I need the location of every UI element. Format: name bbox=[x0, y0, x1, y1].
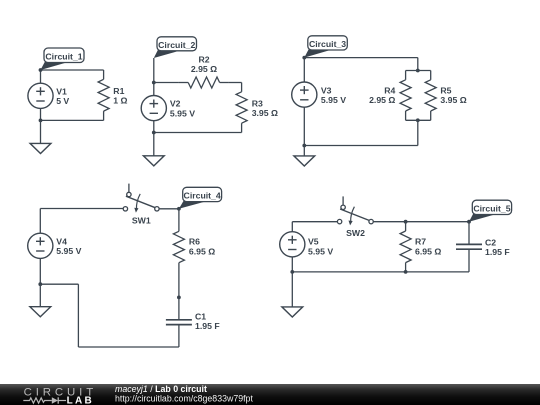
voltage source V2 bbox=[141, 96, 166, 133]
svg-text:R1: R1 bbox=[113, 86, 124, 96]
voltage source V3 bbox=[292, 58, 317, 146]
ground c4 bbox=[30, 284, 51, 317]
node flag Circuit_3 bbox=[304, 36, 347, 58]
svg-text:V1: V1 bbox=[56, 86, 67, 96]
wire top c3 bbox=[304, 58, 418, 71]
wire bottom c4 bbox=[40, 284, 179, 347]
svg-text:5.95 V: 5.95 V bbox=[308, 246, 333, 256]
svg-text:Circuit_1: Circuit_1 bbox=[45, 51, 82, 61]
wire bottom c5 bbox=[292, 271, 469, 273]
ground c2 bbox=[143, 133, 164, 166]
svg-text:V3: V3 bbox=[321, 85, 332, 95]
svg-text:maceyj1 / Lab 0 circuit: maceyj1 / Lab 0 circuit bbox=[115, 384, 207, 394]
svg-text:Circuit_4: Circuit_4 bbox=[184, 191, 221, 201]
node C c5 bbox=[290, 270, 294, 274]
svg-text:Circuit_3: Circuit_3 bbox=[309, 39, 346, 49]
node flag Circuit_1 bbox=[41, 48, 85, 70]
svg-text:1.95 F: 1.95 F bbox=[485, 247, 510, 257]
svg-text:R6: R6 bbox=[189, 237, 200, 247]
resistor R6 bbox=[173, 222, 184, 272]
capacitor C2 bbox=[456, 222, 482, 272]
node flag Circuit_4 bbox=[179, 187, 222, 209]
svg-text:5.95 V: 5.95 V bbox=[56, 246, 81, 256]
wire sw2 to C2 bbox=[373, 221, 469, 223]
svg-text:3.95 Ω: 3.95 Ω bbox=[252, 108, 278, 118]
ground c1 bbox=[30, 120, 51, 153]
wire bottom c2 bbox=[154, 132, 242, 134]
svg-text:V5: V5 bbox=[308, 237, 319, 247]
svg-text:5.95 V: 5.95 V bbox=[321, 95, 346, 105]
node D c3 bbox=[416, 118, 420, 122]
wire node to R6 bbox=[178, 209, 180, 222]
logo squiggle resistor bbox=[23, 398, 52, 403]
svg-text:Circuit_2: Circuit_2 bbox=[158, 40, 195, 50]
capacitor C1 bbox=[166, 297, 192, 347]
svg-text:R3: R3 bbox=[252, 98, 263, 108]
svg-text:V2: V2 bbox=[170, 99, 181, 109]
wire c2 vertical bbox=[153, 58, 155, 96]
switch SW1 bbox=[123, 184, 159, 226]
svg-text:2.95 Ω: 2.95 Ω bbox=[191, 64, 217, 74]
ground c3 bbox=[294, 146, 315, 167]
svg-text:C1: C1 bbox=[195, 312, 206, 322]
node A c5 bbox=[404, 220, 408, 224]
svg-text:5.95 V: 5.95 V bbox=[170, 108, 195, 118]
resistor R5 bbox=[425, 71, 436, 121]
wire R6 to C1 bbox=[178, 272, 180, 297]
node A c2 bbox=[152, 81, 156, 85]
node C c4 bbox=[38, 282, 42, 286]
svg-text:SW1: SW1 bbox=[132, 215, 151, 225]
wire sw1 to node bbox=[159, 208, 179, 210]
node A c4 bbox=[177, 207, 181, 211]
ground c5 bbox=[282, 272, 303, 317]
wire top-left c5 bbox=[292, 222, 337, 232]
svg-text:LAB: LAB bbox=[67, 395, 94, 405]
wire top-left c4 bbox=[40, 209, 123, 234]
svg-text:V4: V4 bbox=[56, 236, 67, 246]
resistor R1 bbox=[98, 70, 109, 120]
voltage source V1 bbox=[28, 70, 53, 120]
switch SW2 bbox=[337, 196, 373, 238]
svg-text:1.95 F: 1.95 F bbox=[195, 321, 220, 331]
svg-text:http://circuitlab.com/c8ge833w: http://circuitlab.com/c8ge833w79fpt bbox=[115, 394, 253, 404]
svg-text:R4: R4 bbox=[384, 85, 395, 95]
node D c5 bbox=[404, 270, 408, 274]
wire bottom c3 bbox=[304, 120, 418, 145]
node C c3 bbox=[416, 69, 420, 73]
wire bottom c1 bbox=[41, 119, 104, 121]
resistor R7 bbox=[400, 222, 411, 272]
node A c1 bbox=[39, 68, 43, 72]
wire bar bottom c3 bbox=[406, 119, 431, 121]
resistor R2 bbox=[154, 77, 242, 88]
wire top c1 bbox=[41, 69, 104, 71]
svg-text:R5: R5 bbox=[440, 85, 451, 95]
node B c4 bbox=[177, 296, 181, 300]
svg-text:6.95 Ω: 6.95 Ω bbox=[189, 246, 215, 256]
voltage source V5 bbox=[280, 232, 305, 272]
svg-text:SW2: SW2 bbox=[346, 228, 365, 238]
node B c1 bbox=[39, 119, 43, 123]
node flag Circuit_5 bbox=[469, 200, 512, 222]
svg-text:R7: R7 bbox=[415, 237, 426, 247]
node B c5 bbox=[467, 220, 471, 224]
svg-text:Circuit_5: Circuit_5 bbox=[473, 204, 510, 214]
node A c3 bbox=[302, 56, 306, 60]
svg-text:3.95 Ω: 3.95 Ω bbox=[440, 95, 466, 105]
voltage source V4 bbox=[28, 233, 53, 284]
footer bar bbox=[0, 384, 540, 405]
node B c3 bbox=[302, 144, 306, 148]
svg-text:1 Ω: 1 Ω bbox=[113, 96, 127, 106]
svg-text:6.95 Ω: 6.95 Ω bbox=[415, 246, 441, 256]
resistor R3 bbox=[236, 83, 247, 133]
node B c2 bbox=[152, 131, 156, 135]
svg-text:2.95 Ω: 2.95 Ω bbox=[369, 95, 395, 105]
svg-text:5 V: 5 V bbox=[56, 96, 69, 106]
wire bar top c3 bbox=[406, 70, 431, 72]
logo diode bbox=[52, 397, 58, 403]
resistor R4 bbox=[400, 71, 411, 121]
node flag Circuit_2 bbox=[154, 37, 197, 58]
svg-text:C2: C2 bbox=[485, 238, 496, 248]
